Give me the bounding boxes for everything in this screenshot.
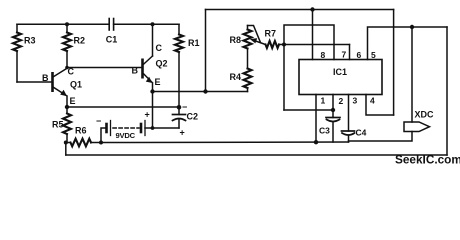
node C3 top junction — [331, 108, 335, 112]
svg-text:8: 8 — [321, 50, 326, 60]
node pin5 line junction — [410, 25, 414, 29]
wire pin7 loop L1 — [284, 25, 334, 60]
capacitor C3 — [326, 110, 340, 142]
wire pin5 riser — [368, 27, 448, 60]
wire riser to right top rail — [205, 10, 207, 92]
svg-text:B: B — [42, 73, 49, 83]
svg-text:6: 6 — [357, 50, 362, 60]
svg-text:R4: R4 — [230, 72, 242, 82]
wire top rail right of C1 — [114, 23, 179, 25]
wire top rail right drop to pin4 line — [393, 10, 395, 116]
node pin1 ground junction — [314, 140, 318, 144]
wire pin2 stub — [332, 95, 334, 111]
wire R8 to R4 — [247, 49, 249, 69]
svg-text:5: 5 — [371, 50, 376, 60]
wire lower bus to C3 — [284, 109, 333, 111]
wire pin4 to top rail drop — [366, 95, 394, 116]
transistor Q1 — [51, 68, 67, 108]
svg-text:+: + — [145, 110, 150, 120]
node battery plus junction — [151, 126, 155, 130]
svg-text:SeekIC.com: SeekIC.com — [395, 153, 460, 167]
svg-text:XDC: XDC — [415, 110, 435, 120]
wire XDC pointer bottom to ground wire — [349, 132, 413, 142]
node Q2 emitter junction — [150, 89, 154, 93]
wire positive rail W_A — [153, 91, 248, 93]
resistor R1 — [175, 24, 183, 107]
svg-text:1: 1 — [321, 96, 326, 106]
wire R3 to Q1 base — [17, 81, 51, 83]
wire R8 top tick and wiper tie — [248, 26, 261, 43]
svg-text:R3: R3 — [24, 36, 36, 46]
node battery minus junction — [99, 141, 103, 145]
wire XDC output drop — [411, 27, 413, 122]
node pin8 on top rail — [310, 7, 314, 11]
node Q1 collector junction — [65, 66, 69, 70]
connector XDC pointer — [404, 122, 430, 132]
node Q2 collector on rail — [151, 22, 155, 26]
svg-text:7: 7 — [342, 50, 347, 60]
svg-text:R5: R5 — [52, 120, 64, 130]
svg-text:B: B — [132, 66, 139, 76]
svg-text:E: E — [70, 96, 76, 106]
svg-text:C3: C3 — [319, 126, 330, 136]
svg-text:R6: R6 — [75, 126, 87, 136]
resistor R4 — [244, 69, 252, 92]
wire ground return to C3 C4 — [101, 141, 349, 144]
wire pin8 riser — [312, 10, 314, 60]
wire pin7 node drop to lower bus — [283, 45, 285, 111]
svg-text:3: 3 — [353, 96, 358, 106]
wire R5 node to bottom rail — [65, 143, 67, 156]
svg-text:C2: C2 — [187, 112, 199, 122]
svg-text:E: E — [155, 77, 161, 87]
resistor R5 — [63, 107, 71, 143]
node top rail feed dot — [203, 89, 207, 93]
resistor R6 — [66, 139, 101, 147]
wire top rail left segment — [17, 23, 109, 25]
wire R8 wiper arrow — [250, 38, 266, 44]
node R2/Q1 collector dot — [65, 22, 69, 26]
battery 9VDC — [107, 121, 153, 136]
wire pin6 stub — [349, 45, 351, 60]
resistor R2 — [63, 24, 71, 67]
wire Q1 collector to Q2 base — [67, 67, 141, 69]
wire battery plus riser — [152, 92, 154, 129]
svg-text:9VDC: 9VDC — [116, 131, 136, 140]
svg-text:4: 4 — [370, 96, 375, 106]
svg-text:C1: C1 — [106, 35, 118, 45]
svg-text:R1: R1 — [188, 38, 200, 48]
node C2 top junction — [177, 105, 182, 110]
wire right edge drop — [446, 27, 448, 155]
wire Q1 emitter rail — [67, 106, 179, 108]
wire pin1 drop to ground wire — [315, 95, 317, 143]
svg-text:R2: R2 — [74, 36, 86, 46]
capacitor C4 — [342, 95, 355, 143]
svg-text:IC1: IC1 — [333, 67, 347, 77]
resistor R8 potentiometer — [244, 26, 252, 49]
wire battery plus to C2 bottom — [153, 127, 180, 129]
svg-text:−: − — [96, 116, 101, 126]
wire right top rail — [206, 9, 394, 11]
capacitor C1 — [109, 19, 113, 31]
svg-text:C: C — [156, 43, 163, 53]
resistor R3 — [13, 24, 21, 82]
svg-text:−: − — [182, 102, 187, 112]
transistor Q2 — [141, 24, 152, 91]
svg-text:2: 2 — [339, 96, 344, 106]
svg-text:C4: C4 — [356, 128, 367, 138]
wire battery minus riser — [101, 128, 106, 143]
node R5 bottom junction — [64, 141, 68, 145]
capacitor C2 — [173, 107, 186, 128]
svg-text:+: + — [180, 128, 185, 138]
IC op-amp U1 box IC1 — [299, 60, 382, 95]
wire R7 to pin6 line — [279, 44, 350, 46]
svg-text:Q2: Q2 — [156, 59, 168, 69]
svg-text:R8: R8 — [230, 35, 242, 45]
node R7 junction — [282, 43, 286, 47]
svg-text:R7: R7 — [265, 29, 277, 39]
node Q1 emitter junction — [65, 105, 69, 109]
resistor R7 — [266, 41, 280, 48]
wire bottom rail — [66, 154, 447, 156]
svg-text:Q1: Q1 — [70, 80, 82, 90]
